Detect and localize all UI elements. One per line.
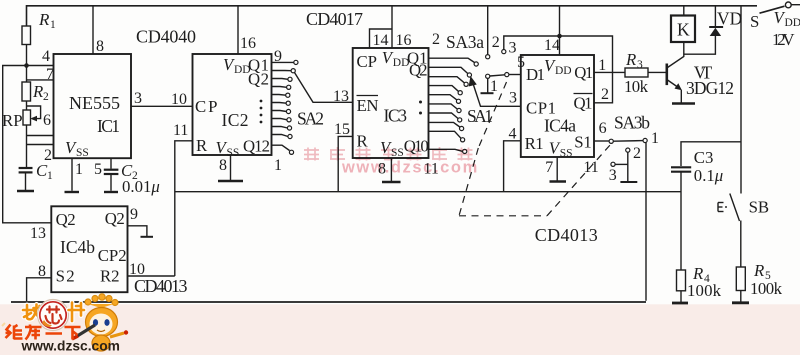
IC3 CD4017 box <box>353 48 429 158</box>
svg-text:1: 1 <box>490 78 498 95</box>
svg-text:SS: SS <box>227 147 240 159</box>
wire R3 to VT base <box>648 71 666 73</box>
ground VT emitter <box>672 102 695 104</box>
wire pin7 <box>27 79 54 81</box>
svg-text:C3: C3 <box>694 148 714 167</box>
diode VD triangle <box>710 28 721 36</box>
ground pin1 NE555 <box>65 191 80 193</box>
pushbutton SB lever <box>730 194 740 222</box>
svg-text:100k: 100k <box>750 279 783 298</box>
SA3a contact 2 circle <box>486 55 490 59</box>
svg-text:1: 1 <box>651 130 659 147</box>
transistor VT collector wire <box>667 42 684 68</box>
transistor VT base bar <box>665 64 668 86</box>
svg-text:Q1: Q1 <box>574 94 593 113</box>
watermark char zhao <box>23 305 42 321</box>
svg-text:D1: D1 <box>526 65 545 84</box>
ground C1 <box>17 190 34 192</box>
SA2 contact circles <box>286 60 298 154</box>
svg-text:Q2: Q2 <box>56 210 76 229</box>
wire pin11 R IC2 <box>175 141 193 276</box>
wire SA3b contact1 down to bottom wire <box>645 143 647 301</box>
svg-text:16: 16 <box>240 35 256 52</box>
wire SA3a contact3 to VDD node <box>504 36 560 50</box>
label VSS NE555 <box>65 138 89 159</box>
svg-text:11: 11 <box>583 159 598 176</box>
svg-text:7: 7 <box>46 66 54 83</box>
svg-text:IC1: IC1 <box>97 116 120 136</box>
wire pin7 IC4a to ground <box>556 157 558 181</box>
ground R5 <box>732 301 749 304</box>
svg-text:1: 1 <box>598 57 606 74</box>
svg-text:7: 7 <box>545 159 553 176</box>
svg-text:2: 2 <box>492 34 500 51</box>
svg-text:11: 11 <box>173 122 188 139</box>
label VSS IC2 <box>216 138 240 159</box>
svg-text:10k: 10k <box>624 77 649 96</box>
svg-text:DD: DD <box>785 17 800 29</box>
capacitor C1 <box>19 168 33 172</box>
wire junction to R2 <box>26 66 28 83</box>
IC4a CD4013 box <box>521 55 594 157</box>
ground C2 <box>104 191 118 193</box>
svg-text:SB: SB <box>749 198 770 217</box>
svg-text:RP: RP <box>2 111 23 130</box>
svg-text:14: 14 <box>373 32 389 49</box>
svg-text:SA3a: SA3a <box>446 32 484 52</box>
svg-text:9: 9 <box>274 48 282 65</box>
SA3b pole circle <box>609 139 613 143</box>
wire Q1 pin1 IC4a to R3 <box>594 71 625 73</box>
svg-text:R: R <box>196 136 208 155</box>
svg-text:12V: 12V <box>772 30 795 49</box>
wire rail to right vertical <box>740 6 742 194</box>
svg-text:S1: S1 <box>574 133 592 152</box>
svg-text:3: 3 <box>609 167 617 184</box>
svg-text:4: 4 <box>509 126 517 143</box>
wire R4 to ground <box>680 291 682 303</box>
label EN-bar IC3 <box>357 96 379 116</box>
ganged switch dashed link <box>459 82 611 216</box>
RP wiper arrowhead <box>30 116 37 122</box>
svg-text:NE555: NE555 <box>69 93 120 113</box>
bottom wire <box>11 301 646 303</box>
watermark mascot <box>72 294 128 351</box>
label VDD supply <box>774 8 800 29</box>
resistor R2 <box>22 82 31 101</box>
SA3a closed contact line <box>490 75 505 76</box>
svg-text:9: 9 <box>130 206 138 223</box>
svg-text:3: 3 <box>509 90 517 107</box>
svg-text:Q2: Q2 <box>248 70 269 89</box>
wire S1 pin6 IC4a to SA3b <box>594 140 609 142</box>
svg-text:14: 14 <box>544 37 560 54</box>
label VDD IC3 <box>382 48 410 69</box>
wire junction to left rail <box>3 66 52 223</box>
SA1 contact stubs Q1-Q10 <box>429 58 475 151</box>
terminal bar SA3a contact1 <box>481 92 494 94</box>
svg-text:CD4017: CD4017 <box>306 9 363 29</box>
transistor VT emitter wire <box>667 80 681 90</box>
svg-text:EN: EN <box>357 96 379 115</box>
svg-text:S: S <box>750 12 759 31</box>
wire pin8 IC3 to ground <box>390 158 392 181</box>
SA1 wiper arm wire to CP1 IC4a <box>474 85 521 106</box>
SA3b contact 3 circle <box>611 162 615 166</box>
label C2 <box>121 161 138 182</box>
SA3a pole circle <box>505 73 509 77</box>
svg-text:3: 3 <box>134 90 142 107</box>
pushbutton SB actuator <box>718 203 729 212</box>
svg-text:1: 1 <box>75 161 83 178</box>
label C1 <box>36 161 53 182</box>
label VDD IC4a <box>544 56 572 77</box>
svg-text:CD4040: CD4040 <box>136 27 196 47</box>
wire SA3b contact3 to stub <box>615 163 628 165</box>
svg-text:Q2: Q2 <box>105 209 125 228</box>
potentiometer RP body <box>23 110 31 125</box>
SA1 contact circles <box>456 62 478 154</box>
wire pin4 <box>27 65 54 67</box>
SA3b closed contact line <box>613 140 643 143</box>
label R1 <box>38 10 56 31</box>
svg-text:16: 16 <box>396 32 412 49</box>
svg-text:4: 4 <box>42 48 50 65</box>
pink footer strip <box>0 304 800 355</box>
wire R1 pin4 IC4a to bus <box>504 141 521 192</box>
SA3b contact 1 circle <box>643 138 647 142</box>
wire S to VDD supply <box>791 4 800 6</box>
svg-text:R: R <box>753 261 764 280</box>
svg-text:SS: SS <box>391 147 404 159</box>
label R2 <box>32 82 49 103</box>
svg-text:CP2: CP2 <box>98 246 127 265</box>
svg-text:0.01μ: 0.01μ <box>122 177 160 196</box>
svg-text:1: 1 <box>274 157 282 174</box>
SA3a contact 3 circle <box>502 50 506 54</box>
SA1 wiper arrowhead <box>469 76 477 87</box>
resistor R5 <box>736 267 745 291</box>
wire RP to C1 <box>26 125 28 167</box>
wire VDD rail to pin14 IC4a <box>559 6 561 55</box>
wire C2 to ground <box>110 174 112 191</box>
IC2 CD4040 box <box>193 54 272 155</box>
svg-text:R: R <box>32 82 43 101</box>
svg-text:2: 2 <box>432 31 440 48</box>
svg-text:CP: CP <box>357 52 378 71</box>
wire R2 to RP <box>26 101 28 110</box>
wire pin8 S2 IC4b to bottom <box>27 278 52 301</box>
svg-text:www.dzsc.com: www.dzsc.com <box>21 339 120 354</box>
terminal bar SA3b <box>620 181 637 183</box>
wire pin14 loop IC3 <box>370 29 393 48</box>
svg-text:SS: SS <box>76 147 89 159</box>
svg-text:DD: DD <box>555 65 572 77</box>
svg-text:1: 1 <box>47 170 53 182</box>
op-amp U1 NE555 IC1 box <box>54 54 132 158</box>
svg-text:3: 3 <box>509 40 517 57</box>
SA3b contact 2 circle <box>626 148 630 152</box>
svg-text:6: 6 <box>43 112 51 129</box>
wire pin3 NE555 to CP IC2 <box>131 105 193 107</box>
wire VD to collector node <box>684 36 716 54</box>
wire C3 bottom to R4 <box>680 172 682 270</box>
wire R1 bottom to junction <box>26 45 28 66</box>
node VDD junction IC4a <box>557 34 562 39</box>
svg-text:Q1: Q1 <box>574 63 593 82</box>
watermark logo circle <box>38 300 69 331</box>
svg-text:0.1μ: 0.1μ <box>694 166 723 185</box>
svg-text:3DG12: 3DG12 <box>686 78 734 98</box>
dots Q3..Q9 IC3 <box>419 101 422 115</box>
capacitor C3 <box>671 167 691 171</box>
svg-text:IC3: IC3 <box>384 106 408 126</box>
SA2 wiper arm wire to EN IC3 <box>295 73 353 103</box>
svg-text:SA2: SA2 <box>297 109 324 129</box>
svg-text:SS: SS <box>560 148 573 160</box>
watermark char pian <box>69 303 85 322</box>
wire rail to diode VD <box>714 6 716 27</box>
svg-text:5: 5 <box>94 161 102 178</box>
svg-text:10: 10 <box>171 91 187 108</box>
svg-text:SA3b: SA3b <box>614 113 650 133</box>
svg-text:3: 3 <box>637 59 643 71</box>
label R5 <box>753 261 771 282</box>
node junction R1/R2/pins4-7 <box>24 63 29 68</box>
wire pin9 Q2 stub IC4b <box>128 226 147 236</box>
svg-text:100k: 100k <box>687 281 722 300</box>
label R4 <box>692 264 710 285</box>
wire SA3a contact1 stub <box>487 78 489 92</box>
label R3 <box>625 50 643 71</box>
svg-text:8: 8 <box>219 157 227 174</box>
resistor R1 <box>22 26 31 45</box>
ground IC4a <box>550 180 567 182</box>
svg-text:R1: R1 <box>525 134 544 153</box>
svg-text:2: 2 <box>601 86 609 103</box>
SA3a contact 1 circle <box>486 74 490 78</box>
svg-text:8: 8 <box>38 263 46 280</box>
label VSS IC3 <box>380 138 404 159</box>
wire Q1-bar loop IC4a <box>560 36 613 103</box>
wire pin6 <box>27 135 54 137</box>
switch S circle <box>785 2 791 8</box>
svg-text:8: 8 <box>96 38 104 55</box>
svg-text:13: 13 <box>30 225 46 242</box>
ground R4 <box>672 302 688 305</box>
transistor VT emitter arrowhead <box>675 83 682 90</box>
wire pin5 NE555 <box>110 158 112 169</box>
relay K box <box>671 16 695 43</box>
svg-text:15: 15 <box>334 121 350 138</box>
wire SB to R5 <box>740 221 742 268</box>
svg-text:Q12: Q12 <box>243 137 270 156</box>
wire pin16 IC2 <box>237 6 239 54</box>
wire pin16 IC3 <box>391 6 393 48</box>
svg-text:SA1: SA1 <box>467 106 493 126</box>
wire R5 to ground <box>740 291 742 303</box>
svg-text:Q10: Q10 <box>404 137 429 156</box>
wire pin8 NE555 <box>92 6 94 54</box>
switch S lever <box>760 6 785 13</box>
wire SA3b contact2 stub <box>627 152 629 181</box>
RP wiper loop wire <box>27 106 41 119</box>
wire rail to relay K <box>683 6 685 16</box>
svg-text:6: 6 <box>599 120 607 137</box>
wire SA3a contact2 to rail <box>487 6 489 55</box>
watermark weiku highlight <box>2 323 5 326</box>
reset bus wire <box>175 191 681 193</box>
svg-text:IC4b: IC4b <box>60 237 95 257</box>
ground IC2 <box>218 180 243 182</box>
svg-text:R: R <box>38 10 50 29</box>
ground IC3 <box>382 181 401 183</box>
wire C3 top branch <box>681 142 741 166</box>
svg-text:IC2: IC2 <box>222 110 249 130</box>
wire pin2 <box>27 144 54 146</box>
label VSS IC4a <box>549 139 573 160</box>
svg-text:CD4013: CD4013 <box>134 276 188 296</box>
wire C1 to ground <box>25 172 27 190</box>
dots Q3..Q11 IC2 <box>260 100 263 124</box>
diode VD cathode bar <box>709 26 723 28</box>
svg-text:IC4a: IC4a <box>544 116 576 136</box>
svg-text:VD: VD <box>717 9 742 29</box>
label Q1-bar IC4a <box>574 94 593 113</box>
wire pin8 IC2 to ground <box>230 155 232 180</box>
svg-text:CD4013: CD4013 <box>535 225 598 245</box>
watermark weiku yixia <box>6 325 81 340</box>
svg-text:R: R <box>625 50 636 69</box>
capacitor C2 <box>104 170 119 174</box>
svg-text:Q2: Q2 <box>409 61 428 80</box>
wire pin1 NE555 to ground <box>71 158 73 191</box>
svg-text:R2: R2 <box>100 267 120 286</box>
resistor R4 <box>677 270 686 291</box>
svg-text:2: 2 <box>633 145 641 162</box>
resistor R3 <box>625 68 648 77</box>
svg-text:K: K <box>677 20 690 40</box>
label VDD IC2 <box>223 55 251 76</box>
terminal bar pin9 IC4b <box>141 236 154 238</box>
IC4b CD4013 box <box>51 206 127 292</box>
wire SA3a pole to D1 IC4a <box>509 74 521 76</box>
svg-text:2: 2 <box>43 91 49 103</box>
SA2 contact stubs Q1-Q11 <box>272 62 294 150</box>
svg-text:1: 1 <box>50 19 56 31</box>
wire pin15 R IC3 to bus <box>338 136 353 191</box>
VDD top rail wire <box>27 6 758 26</box>
wire pin10 CP2 IC4b <box>128 275 175 277</box>
svg-text:13: 13 <box>333 88 349 105</box>
wire VT emitter to ground <box>680 90 682 103</box>
svg-text:www.dzsc.com: www.dzsc.com <box>341 159 479 177</box>
center watermark CJK row <box>304 147 473 161</box>
